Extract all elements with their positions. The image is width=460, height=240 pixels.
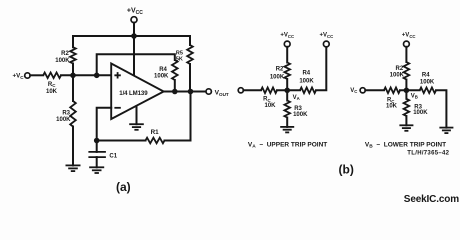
ground C1 — [89, 167, 104, 173]
ground R3 (b1) — [280, 127, 294, 132]
junction node Vb — [404, 88, 410, 94]
op-amp plus symbol — [114, 72, 120, 78]
wire Vcc stem to rail — [133, 23, 135, 36]
svg-text:100K: 100K — [56, 117, 71, 123]
svg-text:100K: 100K — [293, 112, 308, 118]
svg-text:+VCC: +VCC — [320, 33, 334, 39]
svg-text:C1: C1 — [109, 153, 117, 159]
wire minus input from C1 node — [97, 108, 112, 141]
capacitor C1 stem bottom — [96, 157, 98, 167]
node +Vc input terminal — [25, 73, 30, 78]
svg-text:100K: 100K — [154, 73, 169, 79]
wire Vcc down to op-amp V+ pin — [133, 36, 135, 75]
wire R2 to node Va — [286, 79, 288, 90]
resistor R2 (b1) — [284, 63, 290, 80]
svg-text:VA: VA — [293, 95, 300, 101]
wire Vcc to R2 (b1) — [286, 47, 288, 63]
resistor Rc (b1) — [261, 88, 277, 94]
wire Rc to node to R4 (b2) — [400, 89, 420, 91]
svg-text:100K: 100K — [413, 110, 428, 116]
wire R4 up to Vcc (b1) — [316, 47, 326, 91]
svg-text:R3: R3 — [62, 111, 70, 117]
wire R5 top lead from rail — [189, 36, 191, 45]
svg-text:(b): (b) — [339, 163, 354, 177]
wire R5 bottom lead to output node — [189, 64, 191, 92]
junction node A (R2/R3/Rc) — [70, 73, 76, 79]
wire Rc to node to R4 (b1) — [277, 89, 300, 91]
wire Rc to junction to op-amp plus input — [61, 74, 111, 76]
ground R3 (b2) — [399, 125, 413, 131]
svg-text:R2: R2 — [396, 66, 404, 72]
resistor R1 — [146, 138, 165, 144]
svg-text:5K: 5K — [176, 56, 183, 62]
wire R3 to ground — [72, 127, 74, 166]
wire R1 to C1 node — [97, 140, 146, 142]
ground R3 (a) — [66, 165, 81, 171]
svg-text:100K: 100K — [420, 80, 435, 86]
resistor R2 (b2) — [404, 62, 410, 80]
op-amp ground stem — [136, 106, 138, 124]
junction R4/output — [172, 89, 178, 95]
op-amp minus symbol — [114, 107, 120, 109]
resistor R3 (b1) — [284, 101, 290, 118]
resistor R5 — [187, 45, 193, 64]
resistor R3 (a) — [70, 101, 76, 127]
svg-text:SeekIC.com: SeekIC.com — [404, 194, 459, 205]
wire feedback riser to R4 top — [97, 54, 175, 75]
svg-text:VC: VC — [350, 88, 357, 94]
resistor R4 (b2) — [420, 88, 436, 94]
wire R2 to node Vb — [405, 80, 407, 91]
capacitor C1 stem top — [96, 141, 98, 152]
svg-text:+VCC: +VCC — [402, 33, 416, 39]
resistor R3 (a) top lead — [72, 75, 74, 101]
node +Vcc terminal (b1 left) — [284, 41, 290, 47]
junction R5/feedback/output — [188, 89, 194, 95]
resistor Rc (b2) — [384, 88, 400, 94]
svg-text:100K: 100K — [390, 73, 405, 79]
wire input to Rc (b1) — [243, 89, 261, 91]
wire output down-leg to R1 — [165, 92, 191, 141]
svg-text:R4: R4 — [159, 67, 167, 73]
wire node Vb to R3 (b2) — [405, 90, 407, 99]
svg-text:100K: 100K — [55, 58, 70, 64]
svg-text:R2: R2 — [276, 67, 284, 73]
wire R3 to ground (b2) — [405, 116, 407, 125]
wire R2 bottom lead — [72, 64, 74, 76]
wire R2 top lead from rail — [72, 36, 74, 47]
svg-text:10K: 10K — [386, 104, 398, 110]
node input terminal Vc (b2) — [360, 88, 365, 93]
svg-text:1/4 LM139: 1/4 LM139 — [119, 90, 148, 97]
svg-text:R2: R2 — [61, 51, 69, 57]
junction node Va — [284, 88, 290, 94]
resistor R4 (b1) — [300, 88, 316, 94]
svg-text:R4: R4 — [422, 73, 430, 79]
wire R4 down to ground (b2) — [436, 90, 446, 127]
junction C1 node — [94, 138, 100, 144]
node +Vcc terminal (a) — [131, 17, 137, 23]
svg-text:(a): (a) — [116, 180, 131, 194]
wire top supply rail — [73, 35, 190, 37]
svg-text:RC: RC — [48, 82, 56, 88]
node Vout terminal — [206, 89, 211, 94]
svg-text:100K: 100K — [299, 79, 314, 85]
resistor Rc (a) — [43, 73, 61, 79]
ground op-amp — [129, 124, 144, 130]
svg-text:TL/H/7365–42: TL/H/7365–42 — [407, 151, 449, 157]
wire input to Rc (b2) — [365, 89, 384, 91]
wire input to Rc — [30, 74, 43, 76]
svg-text:+VCC: +VCC — [280, 33, 294, 39]
wire R4 bottom lead to output node — [174, 80, 176, 92]
node +Vcc terminal (b2) — [404, 41, 410, 47]
resistor R3 (b2) — [404, 99, 410, 116]
resistor R4 (a) — [172, 60, 178, 80]
svg-text:VB: VB — [411, 93, 418, 99]
svg-text:R1: R1 — [151, 129, 160, 136]
junction Vcc rail — [131, 33, 137, 39]
wire op-amp output to Vout terminal — [164, 91, 206, 93]
node input terminal (b1) — [238, 88, 243, 93]
wire node Va to R3 (b1) — [286, 90, 288, 100]
node +Vcc terminal (b1 right) — [323, 41, 329, 47]
capacitor C1 — [88, 152, 106, 157]
svg-text:10K: 10K — [264, 103, 276, 109]
junction feedback tap on plus input — [94, 73, 100, 79]
ground R4 (b2) — [439, 128, 453, 134]
svg-text:10K: 10K — [46, 89, 58, 95]
svg-text:100K: 100K — [270, 74, 285, 80]
resistor R2 — [70, 47, 76, 63]
op-amp U1 1/4 LM139 — [111, 64, 164, 120]
wire Vcc to R2 (b2) — [405, 47, 407, 62]
svg-text:R4: R4 — [302, 71, 310, 77]
wire R3 to ground (b1) — [286, 118, 288, 127]
